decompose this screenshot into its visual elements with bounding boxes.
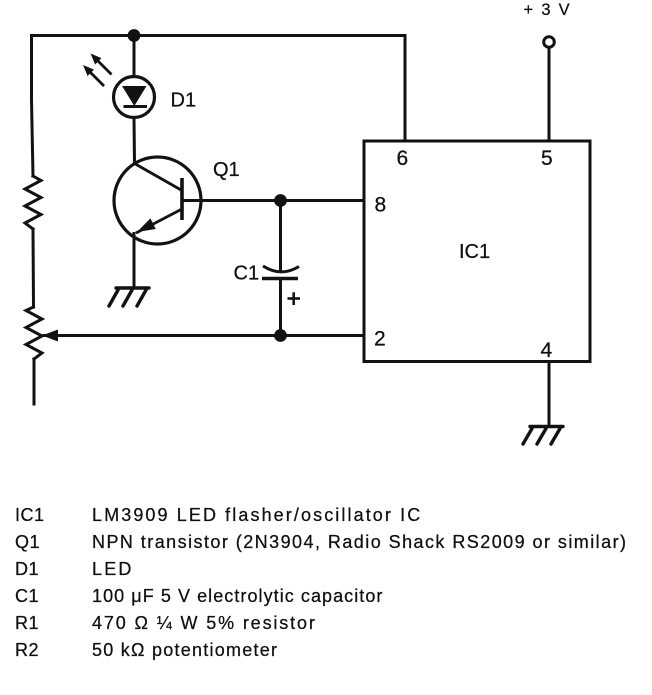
capacitor C1 top plate (curved)	[263, 266, 299, 272]
svg-text:LM3909 LED flasher/oscillator: LM3909 LED flasher/oscillator IC	[92, 505, 422, 525]
node: junction dot C1 bottom	[274, 329, 287, 342]
svg-text:Q1: Q1	[213, 159, 240, 181]
svg-text:IC1: IC1	[459, 241, 490, 263]
svg-text:D1: D1	[15, 559, 39, 579]
wire Q1 emitter to ground	[133, 234, 136, 288]
svg-text:Q1: Q1	[15, 532, 40, 552]
+3V supply terminal	[544, 37, 555, 48]
svg-text:8: 8	[375, 194, 387, 217]
svg-text:NPN transistor (2N3904, Radio: NPN transistor (2N3904, Radio Shack RS20…	[92, 532, 627, 552]
svg-text:2: 2	[374, 328, 386, 351]
svg-text:R1: R1	[15, 613, 39, 633]
wire left vertical (top rail to R1)	[32, 36, 34, 177]
LED D1 triangle (anode)	[122, 86, 147, 106]
wire below R2 (open end)	[33, 359, 36, 404]
transistor Q1 circle	[114, 157, 201, 244]
potentiometer R2 wiper arrowhead	[42, 330, 58, 342]
svg-text:IC1: IC1	[15, 505, 45, 525]
wire pin 4 to ground	[548, 362, 551, 427]
resistor R1	[25, 176, 41, 229]
svg-text:4: 4	[541, 339, 553, 362]
transistor Q1 emitter line with arrow	[136, 209, 182, 233]
node: junction dot C1 top	[274, 194, 287, 207]
svg-text:+ 3 V: + 3 V	[524, 1, 572, 19]
LED D1 light arrow upper	[91, 54, 112, 75]
wire LED anode from rail	[133, 36, 136, 77]
LED D1 cathode bar	[124, 105, 148, 108]
svg-text:D1: D1	[171, 89, 197, 111]
svg-text:C1: C1	[15, 586, 39, 606]
LED D1 circle	[114, 77, 155, 118]
wire R1 to R2	[32, 229, 36, 307]
wire Q1 base to IC pin 8	[182, 199, 364, 202]
op-amp/IC U1 box (IC1 LM3909)	[364, 141, 590, 362]
wire C1 top lead	[279, 201, 282, 272]
svg-text:6: 6	[397, 147, 409, 170]
ground (left, Q1 emitter)	[109, 288, 149, 306]
wire pin 6 to top rail	[404, 36, 407, 142]
parts list	[15, 505, 627, 660]
transistor Q1 base bar	[180, 178, 184, 220]
svg-text:LED: LED	[92, 559, 134, 579]
svg-text:50 kΩ potentiometer: 50 kΩ potentiometer	[92, 640, 278, 660]
LED D1 light arrow lower	[83, 65, 104, 86]
transistor Q1 collector line	[135, 164, 183, 191]
wire LED cathode to Q1 collector	[133, 118, 137, 164]
ground (right, IC pin 4)	[523, 427, 563, 445]
potentiometer R2 zigzag	[26, 307, 42, 359]
node: junction dot at LED anode on top rail	[128, 29, 141, 42]
wire R2 wiper / pin 2 line	[44, 334, 364, 337]
svg-text:100 μF 5 V electrolytic capaci: 100 μF 5 V electrolytic capacitor	[92, 586, 383, 606]
svg-text:C1: C1	[234, 263, 260, 285]
wire pin 5 from +3V terminal	[548, 48, 551, 142]
wire top rail	[32, 34, 406, 37]
wire C1 bottom lead	[279, 279, 282, 336]
svg-text:5: 5	[541, 147, 553, 170]
svg-text:R2: R2	[15, 640, 39, 660]
capacitor C1 plus sign	[288, 292, 301, 305]
capacitor C1 bottom plate	[262, 277, 298, 281]
svg-text:470 Ω ¼ W 5% resistor: 470 Ω ¼ W 5% resistor	[92, 613, 317, 633]
